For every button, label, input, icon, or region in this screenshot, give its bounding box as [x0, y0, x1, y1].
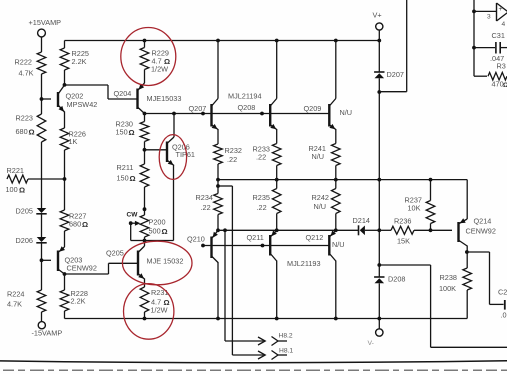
node output base junction — [201, 244, 205, 248]
svg-text:4.7K: 4.7K — [19, 69, 34, 78]
svg-text:R231: R231 — [151, 288, 168, 297]
wire R234 to Q210 emitter — [217, 215, 219, 231]
svg-text:+15VAMP: +15VAMP — [29, 18, 62, 27]
op-amp U3 (partial) — [496, 3, 498, 21]
svg-text:D214: D214 — [353, 216, 370, 225]
wire D207 down rail — [378, 78, 380, 265]
svg-text:Q204: Q204 — [114, 89, 132, 98]
wire R211 to P200 — [144, 187, 146, 215]
svg-text:Q210: Q210 — [187, 235, 205, 244]
wire Q214 base — [431, 229, 453, 231]
resistor R236 — [379, 229, 391, 231]
wire Q203 collector to R228 — [64, 274, 66, 290]
svg-text:V+: V+ — [373, 11, 382, 20]
wire Q206 base — [145, 149, 168, 151]
diode D214 — [358, 225, 360, 235]
arrow H&1 — [258, 351, 265, 359]
wire bus to Q208 collector — [276, 41, 278, 99]
node mid bus junctions — [216, 178, 220, 182]
svg-text:R238: R238 — [440, 273, 457, 282]
wire R231 to bottom bus — [144, 312, 146, 319]
svg-text:H8.1: H8.1 — [279, 348, 293, 355]
wire R232 to mid bus — [217, 164, 219, 180]
wire Q203 base — [42, 259, 52, 261]
node Q206 base tap — [143, 148, 147, 152]
svg-text:MJL21193: MJL21193 — [287, 259, 321, 268]
wire R235 to Q211 emitter — [276, 214, 278, 231]
svg-text:Ω: Ω — [82, 220, 88, 229]
connector H&2 — [272, 337, 279, 346]
transistor Q208 — [271, 99, 277, 106]
svg-text:4.7K: 4.7K — [7, 300, 22, 309]
transistor Q212 — [330, 230, 336, 236]
resistor R221 — [7, 175, 28, 183]
svg-text:15K: 15K — [397, 237, 410, 246]
svg-text:Ω: Ω — [19, 186, 25, 195]
svg-text:2.2K: 2.2K — [72, 57, 87, 66]
resistor R235 — [276, 180, 278, 189]
transistor Q214 — [459, 219, 467, 224]
svg-text:MJE 15032: MJE 15032 — [147, 257, 184, 266]
wire bus to R225 — [64, 41, 66, 49]
wire Q203 to Q205 base — [65, 273, 109, 275]
svg-text:CW: CW — [127, 212, 139, 219]
svg-text:D208: D208 — [388, 275, 405, 284]
wire D214 to rail — [365, 229, 379, 231]
markup circle around R231 — [124, 284, 174, 340]
svg-text:R242: R242 — [312, 193, 329, 202]
wire top bus — [65, 40, 380, 42]
wire R227 to Q203 emitter — [64, 231, 66, 247]
svg-text:P200: P200 — [149, 218, 166, 227]
diode D206 — [37, 237, 47, 242]
node R225/Q202 junction — [63, 83, 67, 87]
wire mid bus — [218, 179, 467, 181]
terminal +15VAMP — [38, 29, 46, 37]
svg-text:MPSW42: MPSW42 — [67, 100, 98, 109]
svg-text:V-: V- — [368, 340, 374, 347]
svg-text:Ω: Ω — [130, 174, 136, 183]
wire to op-amp input — [474, 10, 497, 12]
resistor R226 — [60, 128, 69, 150]
transistor Q205 — [144, 241, 146, 247]
wire Q208 emitter to R233 — [276, 129, 278, 144]
svg-text:.22: .22 — [227, 155, 237, 164]
svg-text:1/2W: 1/2W — [151, 65, 168, 74]
wire D206 to R224 — [41, 243, 43, 290]
svg-text:Ω: Ω — [503, 82, 507, 89]
svg-text:D207: D207 — [387, 70, 404, 79]
wire R228 to bottom bus — [64, 311, 66, 319]
resistor R227 — [60, 210, 69, 231]
wire D208 node to lower right — [379, 264, 430, 266]
markup ellipse around Q206 — [159, 135, 186, 180]
node R234 jog junction — [216, 184, 220, 188]
wire Q202 collector to Q204 base — [65, 84, 109, 86]
resistor R230 — [144, 114, 146, 122]
wire R233 to mid bus — [276, 166, 278, 180]
svg-text:N/U: N/U — [312, 152, 325, 161]
resistor R223 — [37, 114, 46, 142]
wire Q205 emitter to R231 — [144, 279, 146, 288]
node Q210 emitter junction — [216, 228, 220, 232]
node Q203 collector junction — [63, 272, 67, 276]
wire P200 wiper — [129, 221, 133, 225]
resistor R233 — [272, 144, 281, 166]
wire bus to R229 — [144, 41, 146, 48]
svg-text:R211: R211 — [117, 163, 134, 172]
resistor R211 — [140, 164, 149, 187]
svg-text:R236: R236 — [394, 217, 411, 226]
wire R221 to R226/R227 node — [28, 178, 65, 180]
transistor Q203 — [59, 247, 65, 252]
wire mid bus to Q214 emitter — [466, 180, 468, 219]
svg-text:H8.2: H8.2 — [279, 333, 293, 340]
node D207 junctions — [377, 90, 381, 94]
svg-text:C31: C31 — [492, 31, 505, 40]
svg-text:N/U: N/U — [332, 240, 345, 249]
wire R238 to bottom bus — [466, 290, 468, 319]
wire Q214 to C2 — [467, 251, 490, 253]
terminal V- — [376, 329, 383, 336]
node top bus junctions — [143, 39, 147, 43]
transistor Q211 — [271, 230, 277, 236]
node bottom bus junctions — [143, 317, 147, 321]
svg-text:R235: R235 — [253, 193, 270, 202]
svg-text:-15VAMP: -15VAMP — [32, 329, 63, 338]
terminal -15VAMP — [38, 322, 45, 329]
wire to C31x — [474, 47, 495, 49]
svg-text:Q207: Q207 — [189, 104, 207, 113]
node Q204 collector junction — [143, 112, 147, 116]
svg-text:150: 150 — [116, 128, 128, 137]
transistor Q210 — [212, 230, 218, 238]
wire Q214 collector — [466, 246, 468, 269]
wire Q206 emitter down — [173, 165, 175, 241]
transistor Q204 — [138, 83, 145, 90]
resistor R242 — [335, 180, 337, 189]
svg-text:D205: D205 — [16, 207, 33, 216]
svg-text:N/U: N/U — [340, 108, 353, 117]
svg-text:Q211: Q211 — [247, 233, 264, 242]
arrow H&2 — [258, 337, 265, 345]
bottom rule — [0, 361, 507, 363]
wire R229 to Q204 emitter — [144, 70, 146, 84]
resistor R224 — [37, 290, 46, 312]
node feedback junctions — [472, 10, 476, 14]
wire emitter rail — [218, 229, 359, 231]
wire Q202 base — [42, 98, 52, 100]
wire bus to Q207 collector — [217, 41, 219, 99]
wire D208 to V- — [378, 283, 380, 329]
diode D207 — [374, 71, 384, 73]
svg-text:.22: .22 — [201, 203, 211, 212]
wire driver base bus — [145, 113, 330, 115]
svg-text:680: 680 — [16, 127, 28, 136]
svg-text:1K: 1K — [69, 137, 78, 146]
wire R236 to junction — [414, 229, 431, 231]
transistor Q207 — [212, 99, 218, 106]
resistor R237 — [430, 180, 432, 201]
node Q202 base junction — [40, 97, 44, 101]
transistor Q206 — [173, 114, 175, 138]
svg-text:.22: .22 — [257, 203, 267, 212]
resistor R234 — [217, 180, 219, 194]
wire Q207 emitter to R232 — [217, 129, 219, 144]
potentiometer P200 — [140, 215, 149, 237]
wire R225 to Q202 collector — [64, 70, 66, 85]
svg-text:R234: R234 — [196, 193, 213, 202]
svg-text:TIP61: TIP61 — [176, 150, 195, 159]
node Q203 base junction — [40, 258, 44, 262]
svg-text:2.2K: 2.2K — [71, 297, 86, 306]
svg-text:R3: R3 — [497, 62, 506, 71]
svg-text:1/2W: 1/2W — [151, 306, 168, 315]
wire D205 to D206 — [41, 214, 43, 237]
svg-text:MJE15033: MJE15033 — [147, 94, 182, 103]
wire Q211 collector to bottom bus — [276, 261, 278, 319]
svg-text:MJL21194: MJL21194 — [228, 92, 262, 101]
svg-text:4: 4 — [502, 21, 506, 28]
diode D205 — [37, 208, 47, 213]
wire output base bus — [203, 245, 329, 247]
wire to H&1 — [218, 185, 232, 187]
wire R237 bottom — [430, 224, 432, 231]
diode D208 — [378, 265, 380, 277]
markup circle around R229 — [121, 28, 176, 86]
svg-text:R221: R221 — [7, 166, 24, 175]
markup ellipse around Q205 — [122, 241, 192, 285]
resistor R3xx — [488, 72, 507, 80]
wire V+ to D207 — [378, 30, 380, 72]
wire R230 to R211 — [144, 142, 146, 165]
bottom dashed strip — [3, 369, 507, 371]
resistor R241 — [332, 144, 341, 166]
wire Q202 emitter to R226 — [64, 112, 66, 129]
resistor R228 — [60, 290, 69, 311]
resistor R225 — [60, 48, 69, 70]
svg-text:10K: 10K — [408, 204, 421, 213]
wire +15VAMP to R222 — [41, 37, 43, 52]
svg-text:Ω: Ω — [29, 128, 35, 137]
wire Q209 emitter to R241 — [335, 129, 337, 144]
svg-text:Q208: Q208 — [238, 103, 256, 112]
svg-text:Ω: Ω — [162, 227, 168, 236]
resistor R222 — [37, 52, 46, 74]
svg-text:Q205: Q205 — [106, 249, 124, 258]
svg-text:CENW92: CENW92 — [466, 227, 496, 236]
node Q214 collector junction — [465, 250, 469, 254]
connector H&1 — [272, 351, 279, 360]
wire R226 to R227 — [64, 150, 66, 210]
svg-text:680: 680 — [69, 220, 81, 229]
resistor R231 — [140, 287, 149, 312]
svg-text:+: + — [499, 6, 503, 13]
wire feedback rail — [473, 0, 475, 76]
svg-text:500: 500 — [149, 227, 161, 236]
svg-text:100: 100 — [6, 185, 18, 194]
node emitter rail junctions — [223, 228, 227, 232]
wire R222 to R223 — [41, 74, 43, 114]
svg-text:R222: R222 — [15, 58, 32, 67]
wire bus to Q209 collector — [335, 41, 337, 99]
resistor R232 — [214, 144, 223, 164]
node P200 top junction — [143, 207, 147, 211]
svg-text:.0: .0 — [501, 311, 507, 320]
svg-text:R232: R232 — [225, 146, 242, 155]
svg-text:CENW92: CENW92 — [67, 264, 97, 273]
svg-text:Q214: Q214 — [474, 217, 492, 226]
svg-text:C2: C2 — [498, 288, 507, 297]
resistor R229 — [140, 48, 149, 70]
svg-text:470: 470 — [492, 80, 504, 89]
transistor Q209 — [330, 99, 336, 106]
svg-text:R223: R223 — [16, 114, 33, 123]
svg-text:R224: R224 — [7, 290, 24, 299]
node R236/R237 junction — [429, 228, 433, 232]
node P200 bottom junction — [143, 239, 147, 243]
svg-text:Q212: Q212 — [306, 233, 324, 242]
wire to H&2 — [224, 230, 226, 341]
wire R242 to Q212 emitter — [335, 214, 337, 231]
wire R241 to mid bus — [335, 166, 337, 180]
terminal V+ — [376, 23, 383, 30]
svg-text:.22: .22 — [256, 153, 266, 162]
svg-text:Q209: Q209 — [304, 104, 322, 113]
wire R223 to D205 — [41, 142, 43, 208]
wire Q212 collector to bottom bus — [335, 261, 337, 319]
resistor R238 — [463, 268, 472, 290]
node base bus junctions — [172, 112, 176, 116]
capacitor C31x — [495, 42, 497, 54]
wire R224 to -15VAMP — [41, 312, 43, 322]
svg-text:100K: 100K — [439, 284, 456, 293]
svg-text:150: 150 — [117, 174, 129, 183]
svg-text:D206: D206 — [16, 236, 33, 245]
svg-text:3: 3 — [487, 14, 491, 21]
capacitor C2 — [504, 300, 506, 310]
wire P200 bottom — [144, 237, 146, 241]
svg-text:Ω: Ω — [129, 128, 135, 137]
wire bottom bus — [65, 318, 468, 320]
wire Q206 emitter to P200 node — [145, 240, 174, 242]
transistor Q202 — [59, 85, 65, 94]
wire Q210 collector to bottom bus — [217, 262, 219, 319]
node R221 tap — [63, 177, 67, 181]
wire top-right corner — [406, 0, 408, 92]
svg-text:N/U: N/U — [314, 202, 327, 211]
